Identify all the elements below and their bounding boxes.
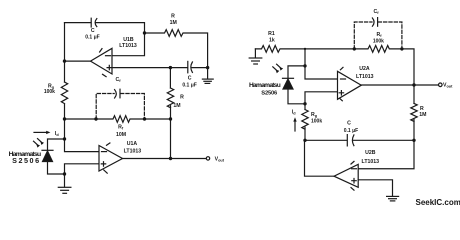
svg-text:C: C: [91, 28, 95, 34]
svg-text:1M: 1M: [173, 103, 180, 109]
svg-text:Cf: Cf: [115, 77, 121, 83]
svg-text:Cf: Cf: [373, 9, 379, 15]
svg-text:Id: Id: [55, 131, 59, 137]
svg-text:100k: 100k: [44, 89, 55, 95]
svg-text:R: R: [180, 94, 184, 100]
svg-text:C: C: [188, 76, 192, 82]
svg-text:Rf: Rf: [118, 125, 124, 131]
svg-text:Rf: Rf: [376, 32, 382, 38]
svg-text:100k: 100k: [311, 119, 322, 125]
svg-text:1M: 1M: [419, 112, 426, 118]
svg-text:Vout: Vout: [443, 83, 453, 89]
svg-text:SeekIC.com: SeekIC.com: [416, 198, 460, 207]
svg-text:U1A: U1A: [127, 141, 138, 147]
svg-text:Vout: Vout: [215, 156, 225, 162]
svg-text:R: R: [171, 14, 175, 20]
svg-text:1k: 1k: [269, 37, 275, 43]
svg-text:0.1 μF: 0.1 μF: [182, 83, 196, 89]
svg-text:0.1 μF: 0.1 μF: [85, 34, 99, 40]
svg-text:0.1 μF: 0.1 μF: [344, 128, 358, 134]
svg-text:C: C: [347, 121, 351, 127]
svg-text:Id: Id: [292, 109, 296, 115]
svg-text:Rg: Rg: [311, 112, 318, 118]
svg-text:S2506: S2506: [12, 156, 41, 165]
svg-text:LT1013: LT1013: [124, 149, 142, 155]
svg-text:LT1013: LT1013: [362, 159, 380, 165]
svg-text:LT1013: LT1013: [119, 43, 137, 49]
svg-text:1M: 1M: [170, 20, 177, 26]
svg-text:10M: 10M: [116, 132, 126, 138]
svg-text:U2B: U2B: [365, 150, 376, 156]
svg-text:LT1013: LT1013: [356, 74, 374, 80]
svg-text:S2506: S2506: [261, 91, 278, 97]
svg-text:Hamamatsu: Hamamatsu: [249, 82, 281, 89]
svg-text:U2A: U2A: [359, 66, 370, 72]
svg-text:100k: 100k: [373, 39, 384, 45]
svg-text:R1: R1: [268, 31, 275, 37]
